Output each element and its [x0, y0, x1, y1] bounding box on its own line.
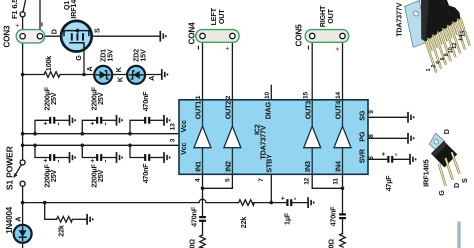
ground bottom cap 2	[117, 152, 123, 163]
wire Vcc rail A	[23, 133, 179, 135]
svg-text:1µF: 1µF	[282, 212, 291, 225]
TDA7377V package illustration	[395, 0, 470, 73]
svg-text:SVR: SVR	[358, 148, 367, 163]
wire IN2 pin 5 down and left to IN1 junction	[203, 174, 233, 188]
ground 22k	[87, 214, 93, 225]
svg-text:25V: 25V	[96, 170, 105, 183]
node gate/100k junction	[82, 73, 86, 77]
svg-text:+: +	[334, 47, 341, 51]
wire bottom bus with hop over input wire	[23, 199, 239, 202]
switch S1 POWER	[4, 145, 25, 190]
ground 47uF	[410, 154, 416, 165]
capacitor 47uF	[381, 152, 396, 191]
ground top cap 2	[117, 115, 123, 126]
node riser2 rail B	[81, 144, 85, 148]
wire IN1 pin 4 down through hop to 470nF input network	[202, 174, 204, 216]
svg-text:Vcc: Vcc	[179, 143, 188, 155]
svg-text:2: 2	[225, 95, 232, 99]
connector CON5 RIGHT OUT	[294, 5, 348, 51]
op-amp triangle 4	[334, 126, 351, 148]
svg-text:+: +	[43, 121, 50, 125]
svg-text:100k: 100k	[44, 56, 53, 71]
ground SG	[408, 112, 414, 123]
svg-text:PG: PG	[358, 131, 367, 142]
svg-text:OUT4: OUT4	[334, 101, 343, 120]
wire IN4 pin 11 down to 470nF right network	[342, 174, 344, 213]
svg-text:OUT: OUT	[217, 9, 226, 24]
wire top cap 1 to ground	[55, 119, 69, 121]
resistor 22k lower left	[57, 217, 73, 237]
svg-text:47µF: 47µF	[384, 175, 393, 192]
wire 47uF to ground	[394, 158, 410, 160]
svg-text:470nF: 470nF	[141, 163, 150, 184]
ground top cap 1	[70, 115, 76, 126]
node rail/zener row junction	[21, 73, 25, 77]
svg-text:+: +	[224, 46, 231, 50]
wire bottom cap 1 to ground	[55, 157, 69, 159]
svg-text:5: 5	[224, 178, 231, 182]
connector CON4 LEFT OUT	[188, 7, 240, 50]
svg-text:+: +	[381, 152, 388, 156]
node rail B left	[21, 144, 25, 148]
svg-text:+: +	[90, 159, 97, 163]
node rail A left	[21, 132, 25, 136]
svg-text:470nF: 470nF	[141, 91, 150, 112]
svg-text:F1 6.5A: F1 6.5A	[10, 0, 19, 19]
svg-text:SG: SG	[358, 110, 367, 121]
op-amp triangle 3	[304, 126, 321, 148]
svg-text:+: +	[43, 159, 50, 163]
connector CON3	[3, 22, 45, 47]
wire 22k to ground	[72, 218, 86, 220]
svg-text:470nF: 470nF	[328, 206, 337, 227]
wire top cap row riser 2	[82, 120, 96, 133]
wire left rail CON3 down to switch S1	[22, 39, 24, 161]
diode 1N4004	[5, 206, 32, 243]
svg-text:14: 14	[335, 92, 342, 99]
svg-text:25V: 25V	[96, 92, 105, 105]
wire bottom cap 2 to ground	[102, 157, 116, 159]
wire CON5 left terminal to OUT3 pin 15	[311, 39, 313, 100]
capacitor 470nF right input	[328, 206, 346, 227]
wire bus 22k to STBY junction to 1uF	[253, 202, 286, 204]
wire CON3 to MOSFET drain	[45, 35, 61, 37]
svg-text:OUT1: OUT1	[194, 101, 203, 120]
capacitor 2200uF 25V bottom row 1	[42, 154, 58, 188]
svg-text:A: A	[14, 217, 23, 222]
svg-text:15V: 15V	[105, 49, 114, 62]
fuse F1 6.5A	[10, 0, 25, 19]
node 22k branch	[43, 201, 47, 205]
wire top cap row riser 1	[35, 120, 49, 133]
svg-text:IN4: IN4	[334, 161, 343, 172]
svg-text:D: D	[442, 129, 451, 134]
wire 470nF left to resistor to bottom edge	[202, 221, 204, 235]
wire IN3 pin 12 down and right to IN4 junction	[312, 174, 342, 188]
capacitor 2200uF 25V bottom row 2	[89, 154, 105, 188]
svg-text:TDA7377V: TDA7377V	[259, 125, 268, 159]
wire diode bottom to edge	[22, 243, 24, 248]
svg-text:6: 6	[440, 57, 446, 60]
svg-text:15: 15	[461, 31, 467, 37]
capacitor 1uF	[280, 196, 295, 225]
node IN3/IN4 join	[341, 187, 345, 191]
svg-text:470nF: 470nF	[189, 206, 198, 227]
svg-text:25V: 25V	[49, 170, 58, 183]
svg-text:22k: 22k	[239, 217, 248, 229]
wire bottom cap row riser 3	[130, 145, 144, 157]
ground 1uF	[308, 197, 314, 208]
wire S1 to bus junction and down to diode	[22, 186, 24, 225]
ground at MOSFET source	[160, 31, 166, 42]
svg-text:12: 12	[304, 177, 311, 184]
wire MOSFET gate down to 100k junction	[83, 50, 85, 75]
node riser2 rail A	[81, 132, 85, 136]
node riser1 rail A	[33, 132, 37, 136]
svg-text:IRF1405: IRF1405	[422, 159, 431, 186]
op-amp IC2 TDA7377V body	[179, 100, 368, 175]
zener ZD1 15V	[85, 49, 114, 84]
svg-text:CON5: CON5	[294, 24, 303, 47]
svg-text:DIAG: DIAG	[263, 102, 272, 120]
svg-text:A: A	[85, 67, 94, 72]
svg-text:15V: 15V	[138, 49, 147, 62]
wire STBY pin 7 down to bus	[270, 174, 272, 202]
svg-text:10: 10	[264, 92, 271, 99]
wire DIAG pin 10 stub	[270, 85, 272, 100]
capacitor 2200uF 25V top row 2	[89, 86, 105, 125]
svg-text:Vcc: Vcc	[179, 120, 188, 132]
svg-text:13: 13	[170, 123, 177, 130]
svg-text:+: +	[90, 121, 97, 125]
zener ZD2 15V	[114, 49, 156, 84]
wire top cap 3 to ground	[150, 119, 163, 121]
svg-text:S1 POWER: S1 POWER	[4, 145, 14, 190]
svg-text:12: 12	[452, 43, 458, 49]
node IN1/IN2 join	[201, 187, 205, 191]
svg-text:OUT3: OUT3	[303, 101, 312, 120]
wire CON4 right terminal to OUT2 pin 2	[231, 39, 233, 100]
capacitor 470nF left input	[189, 206, 206, 227]
resistor left input (cut at bottom edge)	[188, 235, 206, 248]
ground bottom cap 3	[164, 152, 170, 163]
resistor 22k on bus	[239, 200, 255, 228]
svg-text:S: S	[460, 178, 469, 183]
svg-text:8: 8	[368, 134, 375, 138]
capacitor 470nF top row	[141, 91, 150, 124]
wire bottom cap row riser 2	[82, 145, 96, 157]
svg-text:7: 7	[258, 178, 265, 182]
wire bottom cap row riser 1	[35, 145, 49, 157]
svg-text:IN3: IN3	[303, 161, 312, 172]
wire bottom cap 3 to ground	[150, 157, 163, 159]
capacitor 2200uF 25V top row 1	[42, 86, 58, 125]
resistor right input (cut at bottom edge)	[327, 234, 346, 248]
wire SG pin 9 to ground	[368, 116, 407, 118]
svg-text:1: 1	[195, 95, 202, 99]
svg-text:9: 9	[368, 110, 375, 114]
resistor 100k	[44, 56, 60, 78]
svg-text:0Ω: 0Ω	[327, 239, 336, 248]
wire zener row: rail to 100k to zeners to ground	[23, 74, 44, 76]
svg-text:TDA7377V: TDA7377V	[395, 2, 404, 36]
wire CON5 right terminal to OUT4 pin 14	[342, 39, 344, 100]
svg-text:G: G	[437, 190, 446, 196]
svg-text:IRF1405: IRF1405	[69, 0, 78, 19]
wire MOSFET source to ground	[92, 35, 160, 37]
wire fuse to CON3 + terminal	[22, 17, 24, 35]
svg-text:15: 15	[303, 92, 310, 99]
svg-text:11: 11	[333, 178, 340, 185]
ground top cap 3	[164, 115, 170, 126]
wire top cap 2 to ground	[102, 119, 116, 121]
node riser1 rail B	[33, 144, 37, 148]
ground at zener row	[162, 69, 168, 80]
svg-text:IN2: IN2	[223, 161, 232, 172]
IRF1405 package illustration	[422, 129, 469, 196]
op-amp triangle 2	[224, 126, 241, 148]
svg-text:CON4: CON4	[188, 22, 197, 45]
svg-text:D: D	[50, 29, 59, 34]
svg-text:1N4004: 1N4004	[5, 206, 14, 234]
svg-text:4: 4	[195, 178, 202, 182]
transistor Q1 IRF1405	[50, 0, 102, 61]
wire PG pin 8 to ground	[368, 137, 407, 139]
wire 22k branch: bus dot down and right to 22k	[45, 203, 57, 220]
gray bar bottom right (cropped neighbouring figure)	[457, 222, 460, 248]
svg-text:IN1: IN1	[194, 161, 203, 172]
ground bottom cap 1	[70, 152, 76, 163]
svg-text:3: 3	[169, 138, 176, 142]
svg-text:0Ω: 0Ω	[188, 239, 197, 248]
wire 1uF to ground	[292, 202, 307, 204]
wire CON3 - terminal up to top edge	[39, 0, 41, 34]
wire SVR pin 6 to 47uF	[368, 158, 387, 160]
svg-text:22k: 22k	[57, 225, 66, 237]
svg-text:+: +	[15, 23, 22, 27]
svg-text:G: G	[74, 55, 83, 61]
op-amp triangle 1	[194, 126, 211, 148]
svg-text:1: 1	[426, 68, 432, 71]
svg-text:S: S	[93, 28, 102, 33]
svg-text:+: +	[280, 196, 287, 200]
node riser3 rail A	[128, 132, 132, 136]
wire Vcc rail B	[23, 144, 179, 146]
svg-text:25V: 25V	[49, 92, 58, 105]
svg-text:CON3: CON3	[3, 25, 12, 48]
wire top cap row riser 3	[130, 120, 144, 133]
capacitor 470nF bottom row	[141, 154, 150, 183]
node S1/bus junction	[21, 201, 25, 205]
wire 470nF right to resistor	[342, 219, 344, 234]
node riser3 rail B	[128, 144, 132, 148]
svg-text:6: 6	[368, 156, 375, 160]
node STBY/bus	[270, 201, 274, 205]
ground PG	[408, 133, 414, 144]
svg-text:OUT2: OUT2	[224, 101, 233, 120]
svg-text:A: A	[147, 76, 156, 81]
svg-text:OUT: OUT	[326, 8, 335, 23]
wire CON4 left terminal to OUT1 pin 1	[202, 39, 204, 100]
